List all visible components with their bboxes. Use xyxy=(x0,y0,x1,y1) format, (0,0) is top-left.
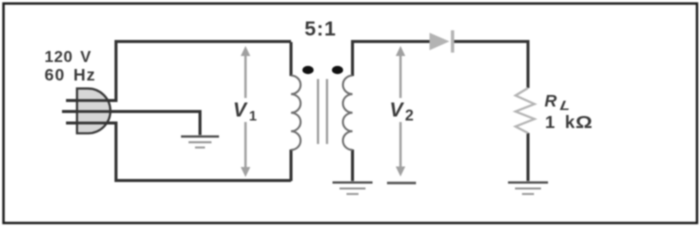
svg-text:1: 1 xyxy=(249,108,257,124)
svg-text:V: V xyxy=(390,100,405,122)
svg-text:2: 2 xyxy=(405,108,414,125)
svg-text:120 V: 120 V xyxy=(45,49,92,66)
svg-text:60 Hz: 60 Hz xyxy=(45,65,96,84)
svg-text:5:1: 5:1 xyxy=(304,18,336,41)
svg-text:1 k: 1 k xyxy=(545,112,575,132)
svg-text:Ω: Ω xyxy=(576,112,593,132)
svg-text:V: V xyxy=(233,100,248,122)
svg-text:R: R xyxy=(545,92,558,111)
